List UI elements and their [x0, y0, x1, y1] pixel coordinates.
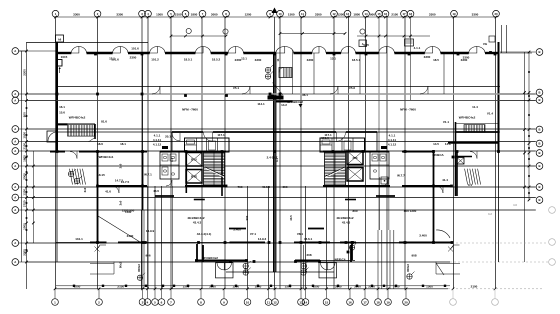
bottom dimension numbers — [74, 284, 478, 288]
svg-text:900: 900 — [394, 284, 399, 288]
svg-text:11: 11 — [276, 58, 280, 61]
svg-text:4.1.11: 4.1.11 — [388, 138, 397, 142]
svg-text:A: A — [14, 127, 16, 131]
left axis circles — [12, 48, 27, 266]
svg-text:3300: 3300 — [368, 284, 375, 288]
svg-text:18.15: 18.15 — [97, 173, 105, 177]
svg-text:3: 3 — [141, 12, 143, 16]
svg-text:A: A — [14, 99, 16, 103]
right end stair — [456, 122, 500, 196]
svg-text:908: 908 — [244, 267, 248, 272]
left elevators — [186, 153, 202, 184]
svg-text:3000: 3000 — [211, 13, 218, 17]
svg-text:B: B — [538, 151, 540, 155]
svg-text:1800: 1800 — [191, 13, 198, 17]
left outer wall — [56, 42, 58, 262]
svg-text:2100: 2100 — [117, 284, 124, 288]
svg-text:2: 2 — [97, 12, 99, 16]
svg-text:1: 1 — [55, 12, 57, 16]
svg-text:36.1: 36.1 — [302, 93, 308, 97]
center party wall — [274, 53, 276, 272]
svg-text:1800: 1800 — [22, 155, 26, 162]
svg-text:2100: 2100 — [471, 284, 478, 288]
structural columns — [56, 51, 500, 263]
svg-text:WF/BC4x1: WF/BC4x1 — [99, 155, 114, 159]
svg-text:4.6: 4.6 — [513, 203, 517, 207]
horizontal axis lines — [19, 43, 548, 273]
svg-text:8FM: 8FM — [353, 157, 358, 160]
svg-text:3300: 3300 — [116, 13, 123, 17]
vertical axis lines — [56, 17, 496, 289]
svg-text:V5.6: V5.6 — [349, 86, 356, 90]
svg-text:1200: 1200 — [245, 13, 252, 17]
svg-text:18.5.1: 18.5.1 — [352, 58, 361, 62]
svg-text:1300 900: 1300 900 — [122, 209, 135, 213]
svg-text:1500: 1500 — [156, 13, 163, 17]
svg-text:5: 5 — [154, 300, 156, 304]
svg-text:B: B — [538, 164, 540, 168]
wall y151 — [50, 151, 434, 153]
svg-text:900: 900 — [22, 112, 26, 117]
svg-text:90x2: 90x2 — [119, 261, 123, 268]
top outer wall — [56, 52, 498, 54]
svg-text:43.4.3: 43.4.3 — [193, 221, 202, 225]
svg-text:18.5.2: 18.5.2 — [212, 58, 221, 62]
svg-text:NF/BCA: NF/BCA — [432, 153, 444, 157]
svg-text:A: A — [14, 149, 16, 153]
svg-text:V1.4: V1.4 — [487, 112, 494, 116]
svg-text:1500: 1500 — [22, 223, 26, 230]
svg-text:41.6: 41.6 — [105, 190, 111, 194]
svg-text:48.6.1: 48.6.1 — [304, 237, 313, 241]
svg-text:A: A — [14, 140, 16, 144]
left stair — [204, 153, 225, 186]
roof slope diagonal — [98, 216, 140, 242]
svg-text:16: 16 — [384, 12, 388, 16]
svg-text:4.25: 4.25 — [363, 43, 369, 47]
svg-text:W.7.7: W.7.7 — [397, 174, 405, 178]
svg-text:A: A — [14, 164, 16, 168]
svg-text:3.400: 3.400 — [419, 234, 427, 238]
corridor wall — [56, 94, 500, 101]
svg-text:5: 5 — [170, 12, 172, 16]
bottom wall — [56, 242, 452, 244]
svg-text:12: 12 — [273, 300, 277, 304]
svg-text:A6: A6 — [58, 38, 62, 42]
svg-text:16: 16 — [348, 300, 352, 304]
plan symbols — [68, 65, 459, 281]
svg-text:9: 9 — [223, 300, 225, 304]
svg-text:1500: 1500 — [22, 132, 26, 139]
right elevators — [347, 151, 363, 181]
svg-text:4.1.11: 4.1.11 — [153, 138, 162, 142]
svg-text:8: 8 — [200, 300, 202, 304]
svg-text:WF/4BC4x2: WF/4BC4x2 — [69, 116, 86, 120]
left dimension numbers — [22, 69, 26, 256]
upper secondary dims — [170, 32, 430, 37]
kitchen blocks — [185, 138, 365, 152]
svg-text:8: 8 — [225, 12, 227, 16]
top wall boxes — [56, 25, 507, 53]
top wall door arcs — [71, 47, 485, 54]
svg-text:8FM1: 8FM1 — [191, 176, 198, 179]
svg-text:NF/4BC4x2: NF/4BC4x2 — [202, 256, 218, 260]
svg-text:9: 9 — [269, 12, 271, 16]
right duct box — [457, 158, 464, 165]
svg-text:1500: 1500 — [285, 284, 292, 288]
svg-text:13.1: 13.1 — [241, 57, 247, 61]
svg-text:1500: 1500 — [74, 284, 81, 288]
svg-text:4E4/4BC4x2: 4E4/4BC4x2 — [187, 216, 205, 220]
svg-text:800 1300: 800 1300 — [404, 209, 417, 213]
stair landing walls — [194, 199, 356, 201]
svg-text:WF/4BC4x2: WF/4BC4x2 — [459, 116, 476, 120]
svg-text:908: 908 — [411, 254, 416, 258]
svg-text:18.5.1: 18.5.1 — [184, 58, 193, 62]
left wall stub — [58, 60, 63, 74]
svg-text:4: 4 — [147, 12, 149, 16]
svg-text:114.1: 114.1 — [257, 102, 265, 106]
left toilet — [155, 146, 179, 196]
svg-text:208x2: 208x2 — [304, 264, 308, 272]
svg-text:10: 10 — [278, 12, 282, 16]
svg-text:2100: 2100 — [22, 143, 26, 150]
top axis circles — [52, 10, 499, 17]
svg-text:101.6: 101.6 — [131, 47, 139, 51]
svg-text:2300: 2300 — [130, 56, 137, 60]
svg-text:908x2: 908x2 — [406, 264, 410, 272]
interior vertical walls — [98, 53, 458, 289]
svg-text:3300: 3300 — [73, 13, 80, 17]
right outer wall — [499, 42, 533, 262]
svg-text:117.1: 117.1 — [324, 133, 332, 137]
svg-text:14.9.9: 14.9.9 — [146, 229, 155, 233]
svg-text:18.6: 18.6 — [97, 142, 103, 146]
svg-text:4-1: 4-1 — [275, 158, 279, 162]
svg-text:1500: 1500 — [313, 284, 320, 288]
svg-text:B: B — [538, 198, 540, 202]
svg-text:7: 7 — [202, 12, 204, 16]
svg-text:3300: 3300 — [22, 249, 26, 256]
svg-text:4.1.12: 4.1.12 — [388, 143, 397, 147]
vertical dim texts — [83, 58, 517, 272]
left ramp — [90, 262, 114, 275]
svg-text:131.1: 131.1 — [75, 237, 83, 241]
svg-text:3300: 3300 — [463, 56, 470, 60]
svg-text:A: A — [14, 49, 16, 53]
right porch — [319, 263, 337, 278]
svg-text:1: 1 — [54, 300, 56, 304]
svg-text:18.1: 18.1 — [120, 142, 126, 146]
svg-text:V5.1: V5.1 — [233, 86, 240, 90]
svg-text:3300: 3300 — [335, 284, 342, 288]
svg-text:13.1: 13.1 — [109, 57, 115, 61]
svg-text:A: A — [14, 196, 16, 200]
svg-text:117.1: 117.1 — [217, 133, 225, 137]
svg-text:11: 11 — [301, 12, 304, 16]
svg-text:17: 17 — [402, 12, 406, 16]
svg-text:1200: 1200 — [232, 284, 239, 288]
svg-text:17: 17 — [363, 300, 367, 304]
porch side walls — [197, 244, 352, 260]
svg-text:3300: 3300 — [472, 13, 479, 17]
right door arc — [436, 230, 450, 275]
svg-text:650: 650 — [282, 185, 287, 189]
svg-text:B: B — [538, 142, 540, 146]
svg-text:20: 20 — [404, 300, 408, 304]
svg-text:20.1: 20.1 — [165, 135, 171, 139]
svg-text:4.1.12: 4.1.12 — [153, 143, 162, 147]
svg-text:2x0: 2x0 — [119, 163, 123, 168]
svg-text:13: 13 — [346, 12, 350, 16]
interior doors — [70, 86, 477, 193]
svg-text:700: 700 — [237, 185, 242, 189]
svg-text:1500: 1500 — [288, 13, 295, 17]
svg-text:B: B — [538, 185, 540, 189]
svg-text:40.5.5: 40.5.5 — [262, 185, 271, 189]
svg-text:1500: 1500 — [183, 284, 190, 288]
svg-text:15: 15 — [325, 300, 329, 304]
svg-text:11.4: 11.4 — [472, 105, 478, 109]
left porch — [216, 263, 234, 278]
right stair — [325, 153, 346, 186]
svg-text:NFM ~7600: NFM ~7600 — [182, 108, 198, 112]
svg-text:3: 3 — [142, 300, 144, 304]
svg-text:V7.1: V7.1 — [250, 232, 257, 236]
svg-text:3300: 3300 — [424, 55, 431, 59]
right axis circles — [536, 49, 555, 266]
bottom axis circles — [52, 289, 499, 306]
svg-text:18.5: 18.5 — [433, 58, 439, 62]
annotation texts — [59, 42, 493, 262]
svg-text:1500: 1500 — [426, 284, 433, 288]
svg-text:14: 14 — [304, 300, 308, 304]
svg-text:NF/BC4: NF/BC4 — [335, 258, 346, 262]
svg-text:18: 18 — [409, 12, 413, 16]
right ramp — [436, 262, 460, 275]
svg-text:3300: 3300 — [354, 284, 361, 288]
right mid wall — [448, 143, 499, 157]
svg-text:B: B — [538, 91, 540, 95]
svg-text:19: 19 — [386, 300, 390, 304]
central stair — [272, 50, 292, 102]
svg-text:14.7.5: 14.7.5 — [115, 179, 124, 183]
wall y186 — [98, 185, 452, 187]
svg-text:3.2: 3.2 — [488, 212, 492, 216]
svg-text:12: 12 — [332, 12, 336, 16]
svg-text:4.1.1: 4.1.1 — [389, 134, 396, 138]
svg-text:A: A — [14, 208, 16, 212]
svg-text:900: 900 — [370, 13, 375, 17]
svg-text:15.6: 15.6 — [59, 111, 65, 115]
svg-text:2100: 2100 — [175, 13, 182, 17]
svg-text:800: 800 — [352, 209, 357, 213]
svg-text:A: A — [14, 92, 16, 96]
svg-text:2700: 2700 — [22, 200, 26, 207]
svg-text:101.2: 101.2 — [151, 58, 159, 62]
svg-text:18: 18 — [376, 300, 380, 304]
svg-text:4: 4 — [147, 300, 149, 304]
svg-text:908x2: 908x2 — [137, 264, 141, 272]
svg-text:1200: 1200 — [22, 189, 26, 196]
svg-text:41.4: 41.4 — [442, 178, 448, 182]
svg-text:4.1.1: 4.1.1 — [414, 46, 421, 50]
left entrance — [47, 131, 57, 142]
svg-text:W.7.1: W.7.1 — [144, 173, 152, 177]
svg-text:NFM ~7600: NFM ~7600 — [400, 108, 416, 112]
svg-text:NF/4BC4x2: NF/4BC4x2 — [287, 100, 303, 104]
svg-text:2: 2 — [98, 300, 100, 304]
svg-text:V1.1: V1.1 — [443, 120, 450, 124]
svg-text:14.2: 14.2 — [281, 103, 287, 107]
svg-text:11: 11 — [267, 300, 271, 304]
svg-text:3300: 3300 — [209, 284, 216, 288]
svg-text:10: 10 — [246, 300, 250, 304]
svg-text:A: A — [14, 260, 16, 264]
svg-text:4-1: 4-1 — [170, 158, 174, 162]
svg-text:81.6: 81.6 — [101, 120, 107, 124]
svg-text:6: 6 — [185, 12, 187, 16]
svg-text:3300: 3300 — [22, 69, 26, 76]
svg-text:3300: 3300 — [255, 58, 262, 62]
left end stair — [56, 124, 95, 142]
svg-text:1200: 1200 — [337, 13, 344, 17]
secondary axis circles — [186, 8, 365, 35]
svg-text:13.1: 13.1 — [330, 57, 336, 61]
svg-text:900: 900 — [245, 215, 249, 220]
svg-text:2x0: 2x0 — [119, 200, 123, 205]
svg-text:906: 906 — [145, 254, 150, 258]
svg-text:2100: 2100 — [391, 13, 398, 17]
svg-text:3.1: 3.1 — [468, 183, 473, 187]
svg-text:8FLA: 8FLA — [191, 159, 197, 162]
svg-text:1800: 1800 — [353, 13, 360, 17]
svg-text:15: 15 — [377, 12, 381, 16]
svg-text:43.6: 43.6 — [153, 189, 159, 193]
svg-text:A: A — [14, 241, 16, 245]
top dimension numbers — [73, 13, 479, 17]
svg-text:3000: 3000 — [22, 173, 26, 180]
svg-text:14.9.3: 14.9.3 — [258, 237, 267, 241]
svg-text:1015: 1015 — [61, 55, 68, 59]
svg-text:B: B — [538, 50, 540, 54]
svg-text:208: 208 — [306, 253, 311, 257]
svg-text:VG: VG — [483, 42, 488, 46]
unit wall y228 — [229, 228, 324, 230]
svg-text:3300: 3300 — [429, 13, 436, 17]
svg-text:B: B — [538, 98, 540, 102]
porch wall y261 — [195, 260, 355, 262]
svg-text:40.5: 40.5 — [289, 215, 293, 221]
svg-text:3300: 3300 — [307, 58, 314, 62]
svg-text:16.1: 16.1 — [59, 105, 65, 109]
svg-text:3300: 3300 — [315, 13, 322, 17]
svg-text:2x0: 2x0 — [83, 187, 87, 192]
right diag stair — [465, 169, 481, 185]
svg-text:43.4.3: 43.4.3 — [342, 221, 351, 225]
left diag stair — [70, 169, 86, 185]
svg-text:19: 19 — [452, 12, 456, 16]
svg-text:3.400: 3.400 — [233, 228, 241, 232]
svg-text:20: 20 — [494, 12, 498, 16]
right toilet — [370, 146, 395, 196]
svg-text:1800: 1800 — [255, 284, 262, 288]
svg-text:43.4.4(4.1): 43.4.4(4.1) — [197, 232, 212, 236]
svg-text:4E4/4BC4x2: 4E4/4BC4x2 — [336, 216, 354, 220]
svg-text:14: 14 — [364, 12, 368, 16]
svg-text:B: B — [538, 128, 540, 132]
svg-text:14.5: 14.5 — [433, 142, 439, 146]
svg-text:A: A — [14, 185, 16, 189]
svg-text:6: 6 — [161, 300, 163, 304]
svg-text:3400: 3400 — [127, 234, 134, 238]
svg-text:14.C: 14.C — [445, 142, 452, 146]
svg-text:4.1.1: 4.1.1 — [154, 134, 161, 138]
svg-text:7: 7 — [170, 300, 172, 304]
svg-text:V8.1: V8.1 — [297, 232, 304, 236]
